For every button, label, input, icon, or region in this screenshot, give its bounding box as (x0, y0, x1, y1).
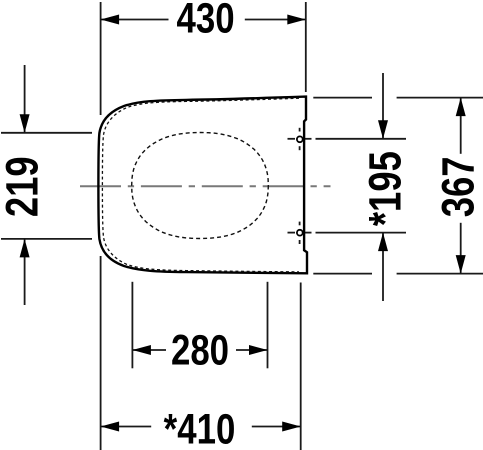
svg-text:367: 367 (433, 156, 483, 217)
svg-text:430: 430 (177, 0, 235, 42)
svg-text:219: 219 (0, 156, 47, 217)
svg-text:*410: *410 (164, 406, 236, 450)
svg-text:*195: *195 (360, 151, 411, 226)
svg-text:280: 280 (171, 327, 229, 374)
